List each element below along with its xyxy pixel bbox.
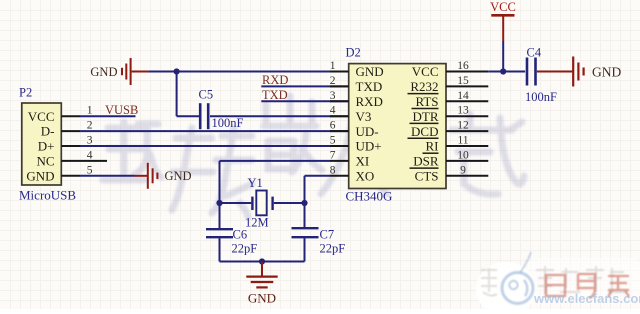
P2 pin 5 stub [61, 164, 92, 176]
svg-text:100nF: 100nF [525, 90, 557, 104]
svg-text:3: 3 [330, 90, 336, 102]
svg-text:D2: D2 [346, 46, 361, 60]
U D2 pin 15 (R232) [408, 75, 489, 94]
wire NC stub (P2 pin4) [80, 160, 107, 162]
svg-text:Y1: Y1 [248, 176, 263, 190]
wire P2 pin5 to GND [80, 175, 135, 177]
U D2 pin 12 (DCD) [408, 120, 489, 139]
junction node VCC/pin16 [500, 68, 506, 74]
value 100nF (C4) [525, 90, 557, 104]
svg-text:P2: P2 [19, 86, 32, 100]
svg-text:NC: NC [36, 154, 54, 169]
svg-text:V3: V3 [356, 109, 372, 124]
U D2 pin 16 (VCC) [412, 60, 489, 79]
U D2 pin 13 (DTR) [410, 105, 489, 124]
svg-text:RTS: RTS [415, 94, 438, 109]
svg-text:6: 6 [330, 120, 336, 132]
U D2 pin 4 (V3) [330, 105, 372, 124]
U D2 pin 7 (XI) [330, 149, 369, 168]
capacitor C4 [527, 58, 536, 86]
wire RXD net to U D2 pin 2 (TXD) [261, 85, 348, 87]
svg-text:XO: XO [356, 169, 375, 184]
svg-text:RI: RI [426, 139, 439, 154]
svg-text:GND: GND [165, 169, 192, 183]
svg-text:C5: C5 [199, 88, 214, 102]
power port GND (top left) [90, 58, 148, 85]
designator C7 [320, 228, 335, 242]
svg-text:RXD: RXD [356, 94, 383, 109]
wire C6 to ground rail [219, 238, 221, 261]
U D2 pin 2 (TXD) [330, 75, 382, 94]
P2 pin 2 stub [61, 120, 92, 132]
designator C6 [233, 228, 248, 242]
svg-text:4: 4 [87, 149, 93, 161]
value 12M (Y1) [245, 216, 269, 230]
U D2 pin 10 (DSR) [410, 149, 489, 168]
svg-text:UD+: UD+ [356, 139, 382, 154]
net label TXD [262, 88, 288, 102]
wire crystal right node to C7 [304, 203, 306, 227]
wire VUSB net stub [80, 115, 136, 117]
U D2 pin 8 (XO) [330, 164, 375, 183]
svg-text:UD-: UD- [356, 124, 379, 139]
svg-text:12: 12 [457, 120, 469, 132]
U D2 pin 1 (GND) [330, 60, 384, 79]
power port VCC [490, 0, 516, 41]
svg-text:16: 16 [457, 60, 469, 72]
wire VCC to pin16 net [502, 41, 504, 72]
U D2 pin 5 (UD+) [330, 135, 382, 154]
svg-text:DCD: DCD [411, 124, 438, 139]
svg-text:3: 3 [87, 135, 93, 147]
crystal Y1 [252, 191, 272, 216]
svg-text:9: 9 [460, 164, 466, 176]
capacitor C5 [200, 103, 208, 129]
svg-text:D-: D- [41, 124, 55, 139]
svg-text:TXD: TXD [356, 79, 383, 94]
svg-text:GND: GND [248, 291, 276, 306]
P2 pin 3 stub [61, 135, 92, 147]
svg-text:14: 14 [457, 90, 469, 102]
svg-text:RXD: RXD [262, 73, 288, 87]
value 22pF (C7) [320, 242, 346, 256]
wire C7 to ground rail [304, 238, 306, 261]
junction node crystal right [301, 200, 307, 206]
svg-text:C4: C4 [527, 46, 542, 60]
junction node GND/C5 [174, 68, 180, 74]
svg-text:8: 8 [330, 164, 336, 176]
wire D- (P2 pin2 to U D2 pin 6 UD-) [80, 130, 349, 132]
svg-text:TXD: TXD [262, 88, 288, 102]
svg-text:1: 1 [330, 60, 336, 72]
svg-text:VUSB: VUSB [105, 103, 138, 117]
value 22pF (C6) [232, 242, 258, 256]
svg-text:10: 10 [457, 149, 469, 161]
designator C5 [199, 88, 214, 102]
label MicroUSB [19, 188, 76, 203]
U D2 pin 3 (RXD) [330, 90, 383, 109]
wire XI (U D2 pin7) to crystal left node [220, 161, 331, 203]
net label VUSB [105, 103, 138, 117]
wire Y1 to crystal right node [274, 202, 305, 204]
svg-text:CTS: CTS [415, 169, 439, 184]
svg-text:15: 15 [457, 75, 469, 87]
connector P2 MicroUSB body [22, 103, 62, 185]
svg-text:5: 5 [87, 164, 93, 176]
capacitor C6 [206, 229, 233, 237]
svg-text:GND: GND [592, 65, 621, 80]
svg-text:VCC: VCC [28, 109, 55, 124]
wire C5 branch (GND to C5) [177, 71, 199, 117]
svg-text:VCC: VCC [412, 64, 439, 79]
U D2 pin 9 (CTS) [415, 164, 489, 183]
svg-text:MicroUSB: MicroUSB [19, 188, 76, 203]
wire pin16 to C4 [488, 71, 525, 73]
svg-text:11: 11 [457, 135, 468, 147]
ground (earth) symbol bottom [246, 262, 277, 306]
svg-text:2: 2 [87, 120, 93, 132]
svg-text:1: 1 [87, 105, 93, 117]
svg-text:GND: GND [90, 65, 117, 79]
svg-text:22pF: 22pF [320, 242, 346, 256]
svg-text:GND: GND [356, 64, 384, 79]
svg-text:5: 5 [330, 135, 336, 147]
U D2 pin 11 (RI) [423, 135, 489, 154]
svg-text:DTR: DTR [413, 109, 439, 124]
wire GND net to U D2 pin1 [148, 71, 348, 73]
wire TXD net to U D2 pin 3 (RXD) [261, 100, 348, 102]
svg-text:C6: C6 [233, 228, 248, 242]
P2 pin 1 stub [61, 105, 92, 117]
svg-text:R232: R232 [410, 79, 438, 94]
svg-text:XI: XI [356, 154, 370, 169]
U D2 pin 6 (UD-) [330, 120, 379, 139]
label CH340G [346, 189, 393, 204]
designator D2 [346, 46, 361, 60]
capacitor C7 [292, 228, 319, 237]
wire D+ (P2 pin3 to U D2 pin 5 UD+) [80, 145, 349, 147]
svg-text:4: 4 [330, 105, 336, 117]
svg-text:VCC: VCC [490, 0, 516, 14]
wire C5 to U D2 pin 4 (V3) [210, 115, 349, 117]
power port GND (P2) [135, 163, 192, 189]
designator P2 [19, 86, 32, 100]
U D2 pin 14 (RTS) [412, 90, 489, 109]
svg-text:13: 13 [457, 105, 469, 117]
svg-text:D+: D+ [38, 139, 55, 154]
junction node ground tap [259, 258, 265, 264]
designator C4 [527, 46, 542, 60]
P2 pin 4 stub [61, 149, 92, 161]
wire crystal left node to Y1 [220, 202, 252, 204]
svg-text:GND: GND [26, 168, 54, 183]
net label RXD [262, 73, 288, 87]
power port GND (right of C4) [537, 57, 622, 87]
IC U D2 CH340G body [349, 64, 446, 189]
svg-text:DSR: DSR [413, 154, 439, 169]
wire XO (U D2 pin8) to crystal right node [305, 176, 331, 203]
designator Y1 [248, 176, 263, 190]
svg-text:www.elecfans.com: www.elecfans.com [533, 291, 640, 306]
svg-text:7: 7 [330, 149, 336, 161]
value 100nF (C5) [212, 116, 244, 130]
wire crystal left node to C6 [219, 203, 221, 228]
svg-text:C7: C7 [320, 228, 335, 242]
svg-text:22pF: 22pF [232, 242, 258, 256]
svg-text:100nF: 100nF [212, 116, 244, 130]
junction node crystal left [216, 200, 222, 206]
wire ground rail (C6 to C7) [220, 261, 305, 263]
svg-text:2: 2 [330, 75, 336, 87]
svg-text:12M: 12M [245, 216, 269, 230]
svg-text:CH340G: CH340G [346, 189, 393, 204]
